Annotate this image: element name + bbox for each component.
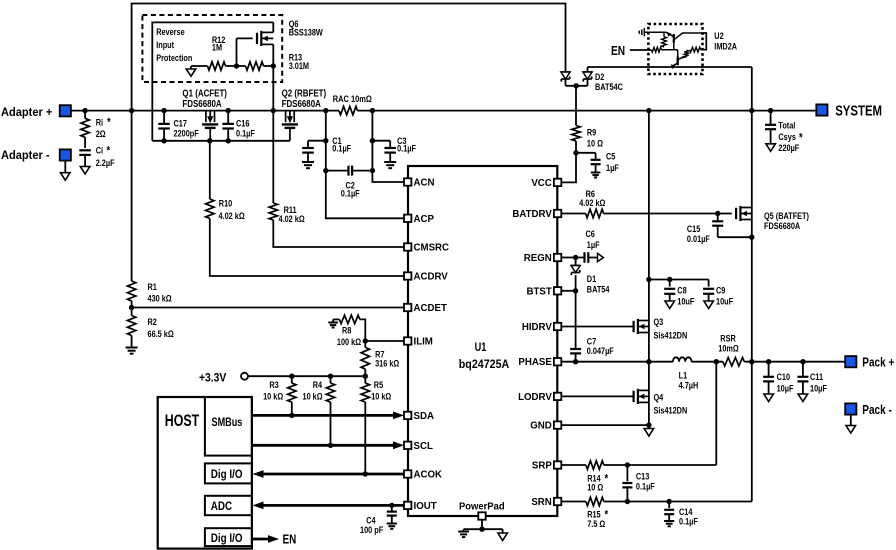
svg-text:HIDRV: HIDRV [522,322,553,333]
transistor Q5 (BATFET) [735,208,737,219]
capacitor C4 [389,503,394,508]
node gate bus junctions [161,138,166,143]
svg-text:220µF: 220µF [778,142,799,153]
resistor R7 [364,341,366,347]
svg-text:2200pF: 2200pF [174,127,199,138]
wire REGN [561,257,576,259]
svg-text:ACOK: ACOK [414,470,443,481]
transistor Q2 (RBFET) [285,111,287,123]
wire SDA [252,414,395,417]
ADC box [205,496,252,515]
svg-text:FDS6680A: FDS6680A [182,98,222,109]
svg-text:R5: R5 [374,379,384,390]
svg-text:ACDET: ACDET [414,303,447,314]
svg-text:PHASE: PHASE [518,357,552,368]
U2 internal transistor 2 [677,50,679,57]
svg-text:R1: R1 [148,281,158,292]
svg-text:CMSRC: CMSRC [414,243,450,254]
wire SRP sense [604,464,717,466]
wire SCL [252,444,395,447]
transistor Q1 (ACFET) [205,111,207,123]
svg-text:ADC: ADC [211,500,232,513]
svg-text:4.02 kΩ: 4.02 kΩ [579,197,605,208]
svg-text:HOST: HOST [165,412,199,430]
svg-text:2Ω: 2Ω [96,128,106,139]
resistor R14 [586,461,604,469]
svg-text:BAT54: BAT54 [587,283,610,294]
wire battery vertical [751,111,753,502]
Pack + terminal [845,356,856,367]
transistor Q3 [632,321,634,332]
svg-text:Q4: Q4 [654,391,664,402]
svg-text:ACN: ACN [414,178,435,189]
wire PHASE [561,361,673,363]
U2 emitter ground symbol [644,31,648,33]
wire adapter top loop to D2 [132,4,566,111]
diode D2 BAT54C [566,85,588,87]
wire RAC left sense [326,111,405,219]
capacitor C14 [668,502,670,509]
ground GND pin [648,425,650,428]
svg-text:D1: D1 [587,273,597,284]
svg-text:Q3: Q3 [654,316,664,327]
wire SRN [561,501,586,503]
svg-text:ACP: ACP [414,214,435,225]
svg-text:100 kΩ: 100 kΩ [337,336,361,347]
HOST box [158,397,252,549]
wire ACOK [264,473,405,476]
wire BATDRV [561,213,586,215]
svg-text:R3: R3 [269,379,279,390]
IC pins left [404,178,411,185]
svg-text:Dig I/O: Dig I/O [211,468,243,481]
PowerPad pin [478,512,485,519]
PowerPad ground right [502,529,504,533]
capacitor C11 [802,362,804,377]
svg-text:0.1µF: 0.1µF [341,187,360,198]
svg-text:10µF: 10µF [777,382,794,393]
wire GND [561,424,649,426]
capacitor C8 [667,277,672,282]
svg-text:Total: Total [778,120,795,131]
U2 IMD2A dotted box [648,24,702,74]
svg-text:BSS138W: BSS138W [289,27,323,38]
node adapter rail junctions [82,108,87,113]
Pack - terminal [845,403,856,414]
svg-text:0.1µF: 0.1µF [679,516,698,527]
dashed box Reverse Input Protection [142,15,282,82]
svg-text:PowerPad: PowerPad [459,501,505,513]
transistor Q6 [237,37,253,39]
svg-text:C5: C5 [606,150,616,161]
IC pins right [554,179,561,186]
svg-text:10 kΩ: 10 kΩ [303,391,323,402]
svg-text:3.01M: 3.01M [289,60,309,71]
ground of R8 [332,319,334,322]
svg-text:RAC 10mΩ: RAC 10mΩ [333,93,372,104]
svg-text:316 kΩ: 316 kΩ [375,358,399,369]
resistor R10 to ACDRV [209,141,211,199]
svg-text:0.1µF: 0.1µF [636,480,655,491]
svg-text:4.7µH: 4.7µH [679,380,699,391]
wire gate bus [152,22,273,140]
capacitor C9 [708,280,710,287]
svg-text:LODRV: LODRV [518,392,552,403]
wire BTST [561,290,576,292]
wire LODRV [561,395,634,397]
svg-text:SRN: SRN [531,497,551,508]
wire SRP [561,464,586,466]
svg-text:10 Ω: 10 Ω [587,138,603,149]
capacitor C1 [323,138,328,143]
diode D1 BAT54 [575,258,577,266]
PowerPad ground left [463,529,465,531]
svg-text:10mΩ: 10mΩ [718,342,739,353]
resistor R12 [191,65,208,67]
svg-text:Dig I/O: Dig I/O [211,532,243,545]
Adapter + terminal [60,105,71,116]
svg-text:Protection: Protection [156,52,192,63]
svg-text:ACDRV: ACDRV [414,272,449,283]
svg-text:FDS6680A: FDS6680A [282,98,322,109]
resistor R2 [131,308,133,316]
wire HIDRV [561,326,634,328]
op-amp U1 bq24725A IC body [408,166,557,516]
svg-text:10 kΩ: 10 kΩ [371,391,391,402]
svg-text:BATDRV: BATDRV [512,209,552,220]
svg-text:GND: GND [530,421,552,432]
svg-text:Input: Input [156,39,174,50]
resistor RSR [723,358,744,366]
SMBus box [205,397,252,456]
resistor R11 to CMSRC [272,111,274,203]
wire adapter+ rail [71,110,339,112]
capacitor C16 [227,111,229,124]
+3.3V supply [241,373,248,380]
svg-text:C10: C10 [777,371,791,382]
svg-text:4.02 kΩ: 4.02 kΩ [219,210,245,221]
svg-text:Adapter -: Adapter - [1,148,50,162]
svg-text:IMD2A: IMD2A [714,41,737,52]
Dig I/O box 1 [205,463,252,483]
svg-text:2.2µF: 2.2µF [96,157,115,168]
svg-text:U2: U2 [714,30,724,41]
svg-text:Adapter +: Adapter + [1,105,52,119]
svg-text:SRP: SRP [532,461,552,472]
wire pack+ rail [744,361,845,363]
svg-text:U1: U1 [475,342,487,354]
svg-text:0.1µF: 0.1µF [397,143,416,154]
svg-text:0.1µF: 0.1µF [332,143,351,154]
svg-text:bq24725A: bq24725A [459,359,509,371]
svg-text:0.047µF: 0.047µF [587,345,614,356]
svg-text:7.5 Ω: 7.5 Ω [587,518,605,529]
wire ILIM [363,338,368,343]
svg-text:C6: C6 [586,228,596,239]
U2 output bracket [701,33,707,50]
node C8 C9 bus [646,277,651,282]
wire phase to RSR [692,361,723,363]
capacitor C15 [715,211,720,216]
svg-text:R10: R10 [219,198,233,209]
svg-text:Ci: Ci [96,145,103,156]
svg-text:1M: 1M [212,42,222,53]
svg-text:Q2 (RBFET): Q2 (RBFET) [282,88,327,99]
resistor R15 [586,497,604,505]
transistor Q4 [632,391,634,402]
svg-text:R8: R8 [342,324,352,335]
svg-text:REGN: REGN [524,253,552,264]
svg-text:10uF: 10uF [716,296,733,307]
wire RAC right sense [372,111,404,182]
wire IOUT [264,504,405,507]
inductor L1 [673,357,692,361]
node ACDET divider [129,305,134,310]
svg-text:Ri: Ri [96,116,103,127]
resistor R4 [330,376,332,383]
ground of R12 [190,66,192,69]
capacitor C2 [323,168,328,173]
resistor R13 [246,62,264,70]
svg-text:10µF: 10µF [810,382,827,393]
wire system to phase vertical [648,111,650,426]
svg-text:BTST: BTST [527,286,552,297]
wire EN input [630,49,651,51]
svg-text:10 kΩ: 10 kΩ [263,391,283,402]
svg-text:R2: R2 [148,316,158,327]
resistor RAC [339,106,358,114]
wire 3.3V rail [248,375,365,377]
resistor Ri [84,111,86,119]
svg-text:SCL: SCL [414,441,433,452]
svg-text:SDA: SDA [414,411,434,422]
svg-text:0.1µF: 0.1µF [236,127,255,138]
node R12-R13 [234,63,239,68]
svg-text:Sis412DN: Sis412DN [654,405,688,416]
svg-text:SMBus: SMBus [212,416,243,430]
svg-text:ILIM: ILIM [414,337,433,348]
svg-text:C8: C8 [677,285,687,296]
svg-text:1µF: 1µF [587,239,600,250]
svg-text:0.01µF: 0.01µF [687,233,710,244]
svg-text:EN: EN [283,533,297,546]
svg-text:R9: R9 [587,127,597,138]
node Q6 source [271,63,276,68]
resistor R9 [575,141,577,153]
capacitor Csys [770,111,772,125]
capacitor C10 [768,362,770,377]
capacitor C6 [576,257,584,259]
svg-text:C9: C9 [716,285,726,296]
node VCC R9 C5 [573,150,578,155]
SYSTEM terminal [816,104,827,115]
capacitor C3 [370,138,375,143]
svg-text:10uF: 10uF [677,296,694,307]
svg-text:Pack -: Pack - [862,403,892,418]
svg-text:VCC: VCC [531,178,551,189]
svg-text:Sis412DN: Sis412DN [654,330,688,341]
capacitor C17 [163,111,165,124]
resistor R8 [333,318,339,320]
svg-text:C11: C11 [810,371,823,382]
svg-text:Csys: Csys [778,131,796,142]
svg-text:66.5 kΩ: 66.5 kΩ [148,328,174,339]
svg-text:Pack +: Pack + [862,355,894,370]
svg-text:430 kΩ: 430 kΩ [148,293,172,304]
capacitor C13 [626,465,628,481]
svg-text:1µF: 1µF [606,162,619,173]
capacitor Ci [79,149,91,151]
svg-text:EN: EN [611,44,625,58]
wire EN from host [252,538,269,541]
Adapter - terminal [60,149,71,160]
U2 internal transistor 1 [648,31,666,33]
svg-text:SYSTEM: SYSTEM [835,102,882,119]
wire VCC [561,153,576,183]
resistor R5 [364,376,366,383]
resistor R1 [131,111,133,281]
wire SRN sense [604,501,752,503]
svg-text:+3.3V: +3.3V [199,372,227,385]
resistor R3 [291,376,293,383]
capacitor C5 [576,152,596,154]
svg-text:IOUT: IOUT [414,501,437,512]
svg-text:4.02 kΩ: 4.02 kΩ [279,213,305,224]
svg-text:Q1 (ACFET): Q1 (ACFET) [182,88,227,99]
svg-text:Reverse: Reverse [156,26,185,37]
svg-text:BAT54C: BAT54C [595,81,623,92]
svg-text:R4: R4 [313,379,323,390]
resistor R6 [586,209,604,217]
svg-text:100 pF: 100 pF [360,524,383,535]
wire D2 to U2 and system [588,66,752,68]
wire ACDET [132,307,405,309]
capacitor C7 [575,291,577,349]
svg-text:10 Ω: 10 Ω [587,482,603,493]
Dig I/O box 2 [205,528,252,546]
svg-text:FDS6680A: FDS6680A [764,220,800,231]
